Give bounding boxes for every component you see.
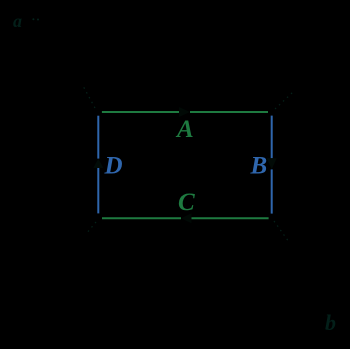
- arrow on right edge (faint): [267, 158, 277, 169]
- svg-text:A: A: [175, 116, 194, 143]
- svg-text:C: C: [178, 189, 195, 216]
- arrow on top edge (faint): [179, 107, 190, 117]
- svg-text:a: a: [13, 11, 22, 31]
- wire: top edge AB segment right: [190, 111, 268, 113]
- corner diagonal top-right (faint dotted): [275, 92, 293, 109]
- corner diagonal top-left (faint dotted): [82, 84, 95, 108]
- faint dot 1 top-left: [32, 18, 34, 20]
- wire: top edge AB segment left: [102, 111, 179, 113]
- wire: right edge B segment top: [271, 116, 273, 159]
- faint dot 2 top-left: [37, 19, 39, 21]
- wire: left edge D segment bottom: [97, 168, 99, 214]
- corner diagonal bottom-right (faint dotted): [274, 221, 289, 242]
- svg-text:D: D: [104, 153, 123, 180]
- wire: bottom edge C segment left: [102, 217, 181, 219]
- arrow on left edge (faint): [93, 159, 103, 168]
- wire: right edge B segment bottom: [271, 169, 273, 213]
- wire: bottom edge C segment right: [192, 217, 269, 219]
- svg-text:B: B: [250, 153, 268, 180]
- svg-text:b: b: [325, 310, 336, 335]
- arrow on bottom edge (faint): [181, 213, 192, 223]
- wire: left edge D segment top: [97, 116, 99, 159]
- corner diagonal bottom-left (faint dotted): [86, 222, 96, 234]
